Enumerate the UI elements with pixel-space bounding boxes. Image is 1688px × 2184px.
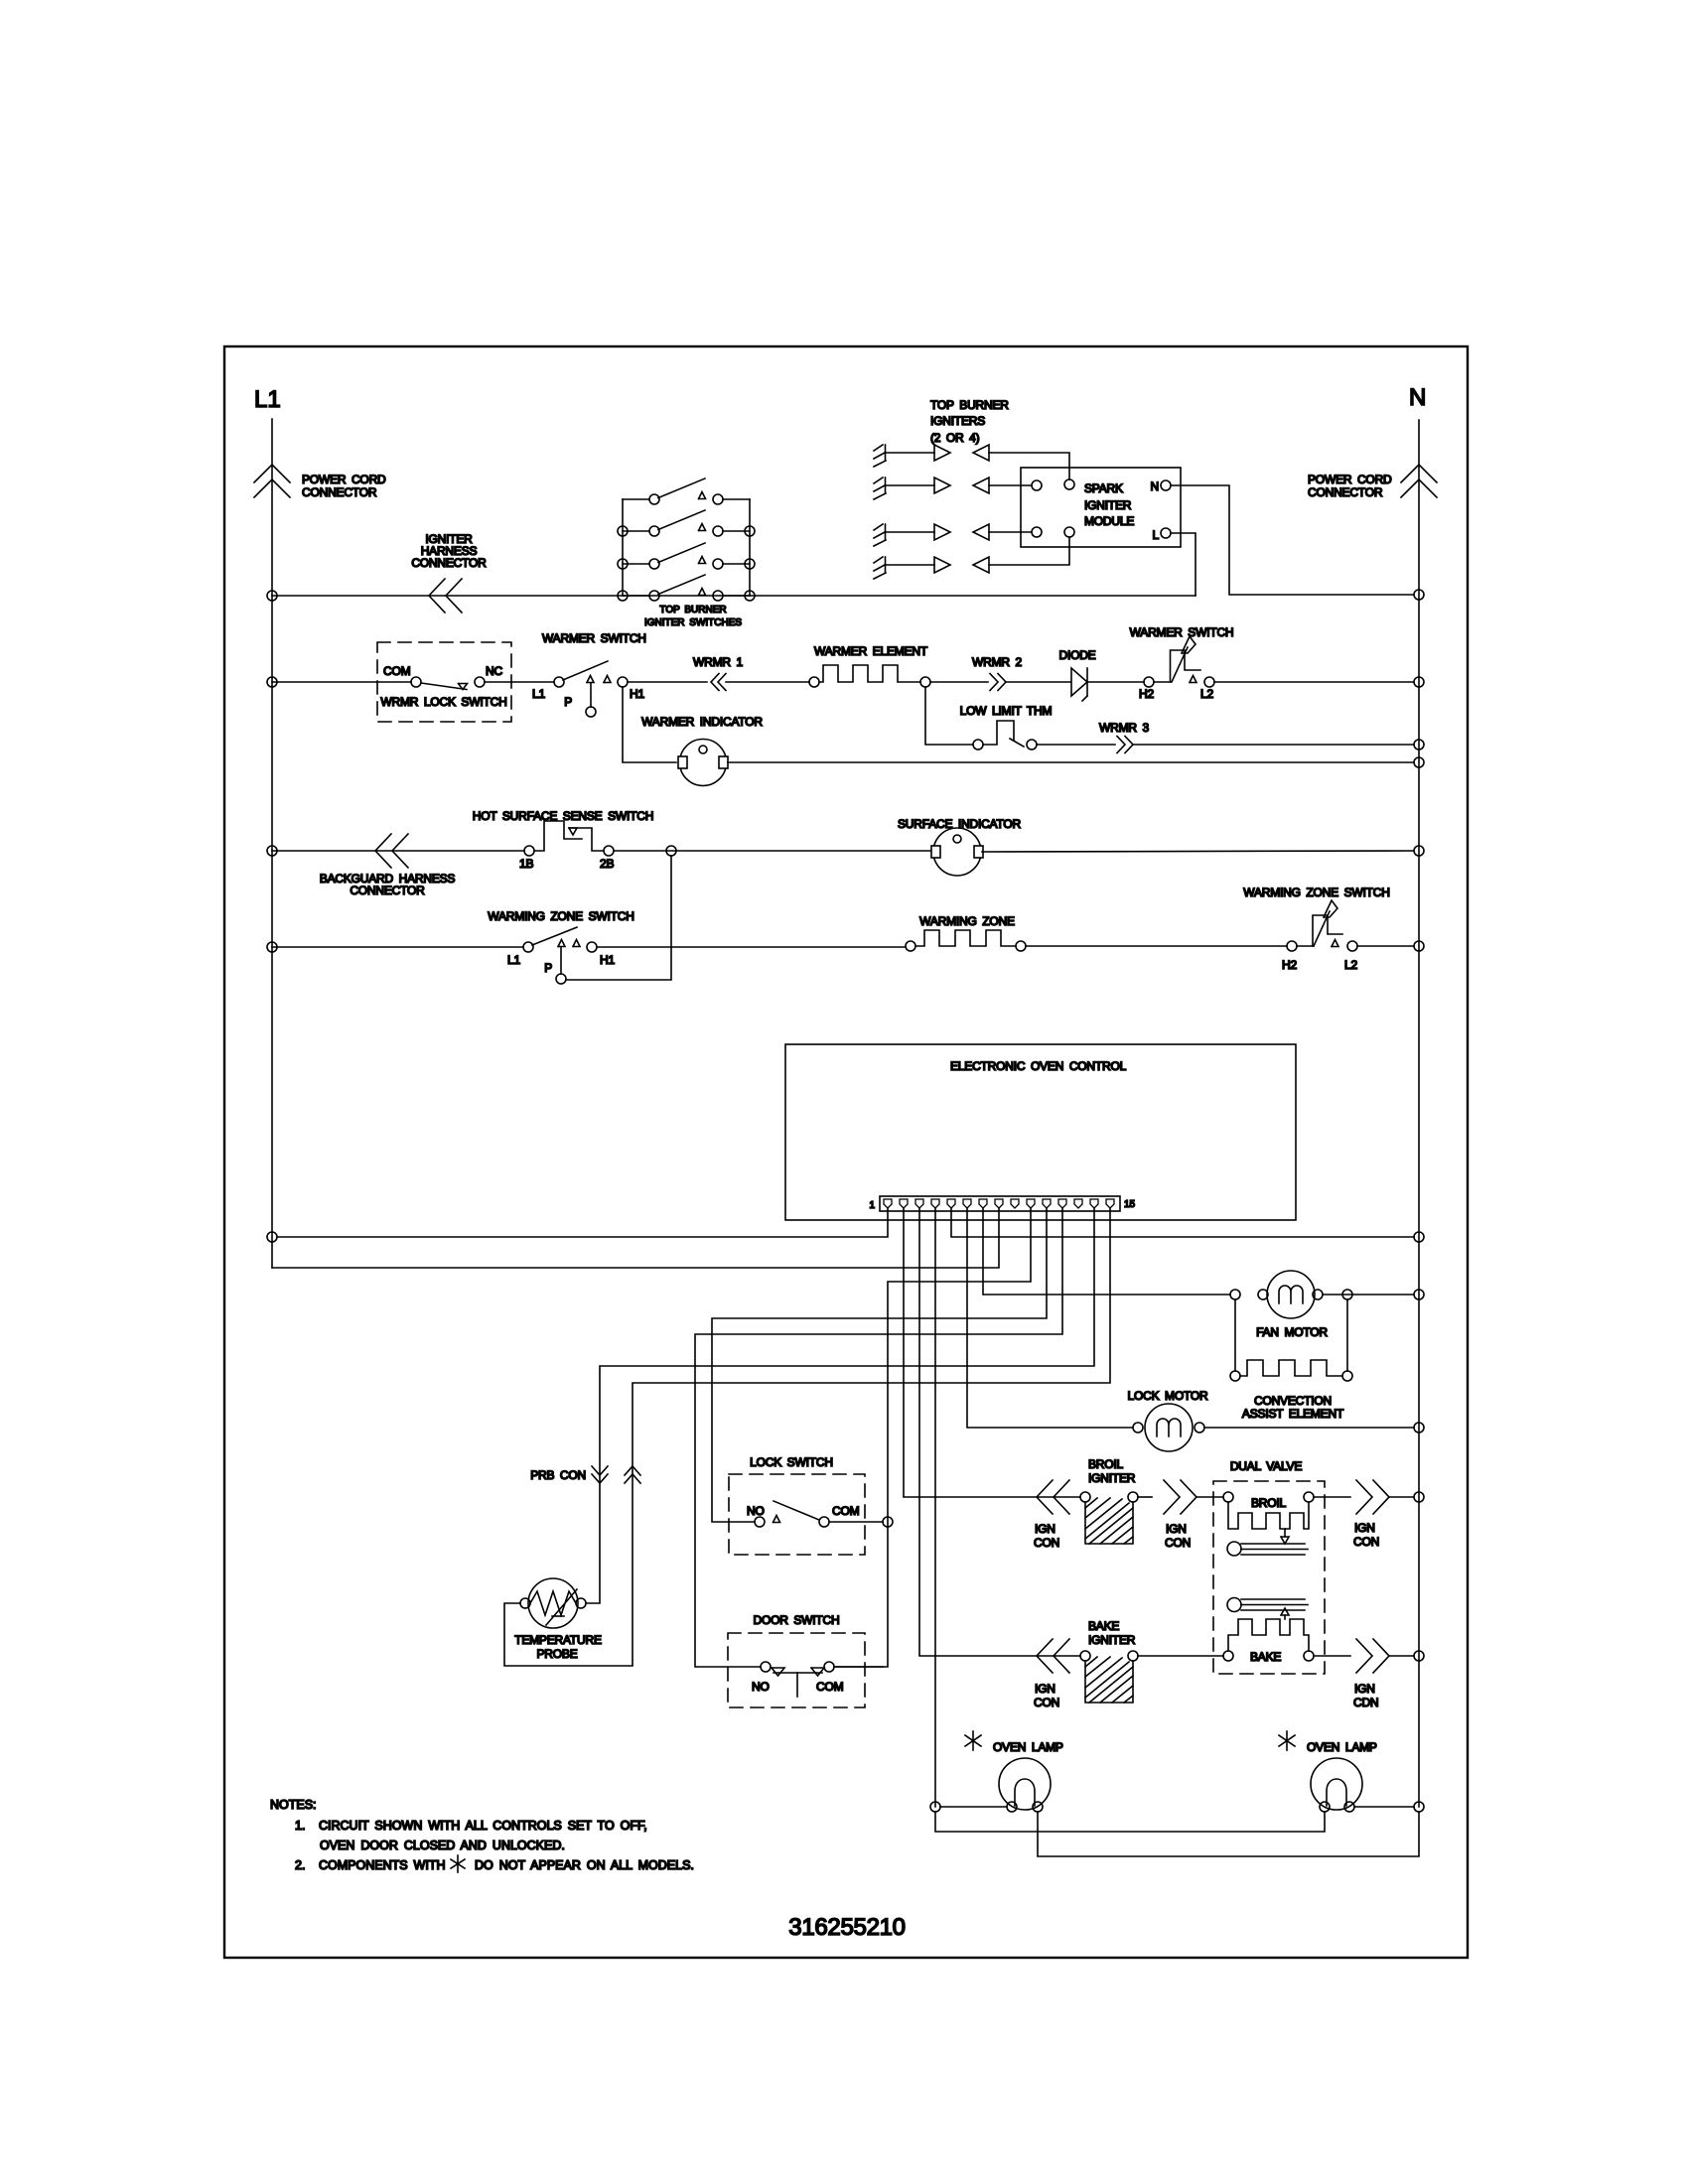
wire H1 to warming zone element bbox=[597, 946, 906, 948]
svg-text:POWER CORD: POWER CORD bbox=[1308, 473, 1392, 486]
svg-text:H1: H1 bbox=[600, 953, 615, 967]
wire lock motor to right rail bbox=[1204, 1427, 1414, 1429]
dual valve bake coil bbox=[1223, 1608, 1314, 1664]
svg-text:BROIL: BROIL bbox=[1088, 1457, 1124, 1471]
top burner igniter switches bbox=[623, 478, 750, 601]
wire H1 down to warmer indicator bbox=[623, 687, 676, 762]
svg-text:CONNECTOR: CONNECTOR bbox=[350, 884, 425, 897]
svg-text:WRMR 1: WRMR 1 bbox=[693, 655, 743, 669]
node junctions igniter switch right bus bbox=[745, 526, 755, 601]
wire element to warming zone switch right bbox=[1026, 945, 1287, 947]
temperature probe bbox=[514, 1578, 602, 1661]
svg-text:COM: COM bbox=[383, 664, 411, 678]
svg-text:1: 1 bbox=[869, 1200, 875, 1211]
backguard harness connector bbox=[320, 834, 456, 897]
node junction right rail lock motor bbox=[1414, 1423, 1424, 1433]
ign con connector bake left bbox=[1034, 1639, 1069, 1709]
svg-text:L1: L1 bbox=[532, 687, 545, 701]
node junction left rail line2 bbox=[267, 677, 277, 687]
svg-text:WRMR LOCK SWITCH: WRMR LOCK SWITCH bbox=[380, 695, 506, 709]
svg-text:COM: COM bbox=[832, 1504, 860, 1518]
svg-text:FAN MOTOR: FAN MOTOR bbox=[1256, 1325, 1328, 1339]
wire igniter row4 to module bbox=[989, 537, 1069, 565]
svg-text:PROBE: PROBE bbox=[536, 1647, 577, 1661]
svg-text:H1: H1 bbox=[630, 687, 644, 701]
bake igniter bbox=[1080, 1619, 1138, 1703]
svg-text:LOW LIMIT THM: LOW LIMIT THM bbox=[960, 704, 1053, 718]
top burner igniter 2 electrode bbox=[874, 478, 989, 499]
wire fan motor to right rail bbox=[1323, 1294, 1414, 1296]
node junction right rail wrmr3 bbox=[1414, 740, 1424, 750]
notes text bbox=[270, 1798, 694, 1872]
svg-text:15: 15 bbox=[1124, 1199, 1136, 1210]
svg-text:L2: L2 bbox=[1344, 958, 1357, 972]
ign con connector broil right bbox=[1353, 1480, 1389, 1549]
node pin warmer element right bbox=[920, 677, 930, 687]
svg-text:CONNECTOR: CONNECTOR bbox=[302, 485, 377, 499]
svg-text:DUAL VALVE: DUAL VALVE bbox=[1230, 1459, 1303, 1473]
svg-text:NC: NC bbox=[486, 664, 502, 678]
svg-text:COMPONENTS WITH: COMPONENTS WITH bbox=[319, 1858, 446, 1872]
low limit thm bbox=[960, 704, 1053, 750]
wire dual valve bake to right rail bbox=[1314, 1655, 1350, 1657]
node junction right rail broil bbox=[1414, 1492, 1424, 1502]
dual valve broil coil bbox=[1223, 1492, 1314, 1544]
warmer element bbox=[809, 644, 928, 687]
wire surface indicator to right rail bbox=[982, 851, 1414, 852]
svg-text:2B: 2B bbox=[600, 857, 614, 871]
svg-text:BROIL: BROIL bbox=[1251, 1496, 1287, 1510]
wire line5 left rail to warming zone switch bbox=[272, 946, 523, 948]
svg-text:COM: COM bbox=[816, 1680, 844, 1694]
wire WRMR1 to warmer element bbox=[726, 681, 809, 683]
svg-text:IGN: IGN bbox=[1354, 1521, 1375, 1535]
svg-text:CON: CON bbox=[1034, 1696, 1059, 1709]
EOC connector pins 1-15 bbox=[884, 1199, 1114, 1208]
svg-text:WARMING ZONE: WARMING ZONE bbox=[919, 914, 1015, 928]
wire pin3 to bake igniter line bbox=[919, 1208, 1080, 1656]
node junction right rail pin5 bbox=[1414, 1232, 1424, 1242]
wire pin8 to left rail corner bbox=[272, 1208, 999, 1268]
svg-text:LOCK SWITCH: LOCK SWITCH bbox=[750, 1455, 833, 1469]
node junction left rail line4 bbox=[267, 846, 277, 856]
igniter harness connector bbox=[411, 532, 487, 613]
WRMR 3 connector bbox=[1099, 721, 1149, 753]
node junction right rail line4 bbox=[1414, 846, 1424, 856]
fan motor bbox=[1256, 1271, 1328, 1339]
wire pin10 to lock and door switch COM bbox=[834, 1208, 1031, 1667]
wire spark module N to right rail bbox=[1171, 485, 1414, 595]
svg-text:1.: 1. bbox=[295, 1819, 305, 1833]
wire ign con to dual valve broil bbox=[1196, 1496, 1223, 1498]
svg-text:BAKE: BAKE bbox=[1088, 1619, 1119, 1633]
svg-text:IGNITER: IGNITER bbox=[1088, 1633, 1136, 1647]
node junction fan line left bbox=[1230, 1290, 1240, 1299]
ign con connector broil middle bbox=[1164, 1480, 1196, 1550]
convection assist element bbox=[1230, 1299, 1352, 1421]
svg-text:IGN: IGN bbox=[1035, 1682, 1055, 1696]
svg-text:DIODE: DIODE bbox=[1058, 648, 1095, 662]
svg-text:MODULE: MODULE bbox=[1084, 514, 1134, 528]
svg-text:WRMR 3: WRMR 3 bbox=[1099, 721, 1149, 735]
svg-text:2.: 2. bbox=[295, 1858, 305, 1872]
svg-text:DOOR SWITCH: DOOR SWITCH bbox=[754, 1613, 840, 1627]
wire L2 to right rail line5 bbox=[1357, 945, 1414, 947]
node junction left rail pin1 bbox=[267, 1232, 277, 1242]
top burner igniter 1 electrode bbox=[874, 445, 989, 467]
wire left rail L1 bbox=[271, 419, 273, 1268]
svg-text:P: P bbox=[544, 961, 552, 975]
warmer switch (left) bbox=[532, 631, 646, 717]
svg-text:IGN: IGN bbox=[1035, 1522, 1055, 1536]
warming zone element bbox=[906, 914, 1026, 951]
node junction right rail line2 bbox=[1414, 677, 1424, 687]
wire pin14 to temperature probe right bbox=[586, 1208, 1094, 1603]
label top burner igniter switches bbox=[644, 605, 742, 628]
svg-text:L1: L1 bbox=[254, 386, 281, 413]
wire bake igniter to dual valve bbox=[1138, 1655, 1223, 1657]
svg-text:WARMING ZONE SWITCH: WARMING ZONE SWITCH bbox=[1243, 886, 1389, 899]
svg-text:NOTES:: NOTES: bbox=[270, 1798, 317, 1812]
WRMR 1 connector bbox=[693, 655, 743, 691]
node junction left rail line1 bbox=[267, 591, 277, 601]
node junction right rail line5 bbox=[1414, 941, 1424, 951]
wire H1 to WRMR1 connector bbox=[628, 681, 707, 683]
top burner igniter 3 electrode bbox=[874, 524, 989, 546]
wire NC to warmer switch L1 bbox=[485, 681, 554, 683]
wire igniter row1 to module bbox=[989, 453, 1069, 479]
broil igniter bbox=[1080, 1457, 1138, 1544]
wire P pin to line4 riser bbox=[566, 856, 671, 980]
wire pin2 to broil igniter line bbox=[904, 1208, 1080, 1497]
wire igniter row3 to module bbox=[989, 531, 1032, 533]
svg-text:CON: CON bbox=[1165, 1536, 1191, 1550]
wire left node to right lamp loop bbox=[935, 1812, 1325, 1832]
wire pin6 to lock motor bbox=[967, 1208, 1133, 1428]
wire fan node down to convection element bbox=[1234, 1299, 1236, 1371]
node junction right rail fan line bbox=[1414, 1290, 1424, 1299]
svg-text:TOP BURNER: TOP BURNER bbox=[659, 605, 726, 615]
svg-text:H2: H2 bbox=[1282, 958, 1297, 972]
wire broil igniter to ign con bbox=[1138, 1496, 1152, 1498]
power cord connector (left) bbox=[254, 465, 386, 499]
svg-text:WRMR 2: WRMR 2 bbox=[972, 655, 1022, 669]
wire pin1 to left rail bbox=[277, 1208, 888, 1237]
svg-text:ELECTRONIC OVEN CONTROL: ELECTRONIC OVEN CONTROL bbox=[950, 1059, 1127, 1073]
svg-text:H2: H2 bbox=[1139, 687, 1154, 701]
warmer switch (right) bbox=[1130, 625, 1234, 701]
wire warmer element node down to low limit thm bbox=[925, 687, 973, 745]
dual valve bake outlet bbox=[1227, 1598, 1308, 1612]
wire line4 left rail to hot surface switch bbox=[272, 850, 524, 852]
wire warmer element to WRMR2 bbox=[930, 681, 988, 683]
svg-text:DO NOT APPEAR ON ALL MODELS.: DO NOT APPEAR ON ALL MODELS. bbox=[475, 1858, 694, 1872]
dual valve broil outlet bbox=[1227, 1542, 1308, 1556]
wire 2B to surface indicator bbox=[614, 850, 933, 852]
wire pin15 to temperature probe left bbox=[504, 1208, 1110, 1666]
wire pin12 to door switch NO bbox=[695, 1208, 1062, 1667]
wire ign con broil right to rail bbox=[1389, 1496, 1414, 1498]
svg-text:NO: NO bbox=[747, 1504, 765, 1518]
node junction fan line right bbox=[1342, 1290, 1352, 1299]
prb con connector bbox=[530, 1466, 640, 1483]
svg-text:(2 OR 4): (2 OR 4) bbox=[930, 431, 980, 445]
wire left lamp return loop bbox=[1038, 1812, 1419, 1856]
wire pin7 to fan motor line bbox=[983, 1208, 1230, 1295]
svg-text:IGNITERS: IGNITERS bbox=[930, 414, 985, 428]
svg-text:L1: L1 bbox=[507, 953, 520, 967]
wire L2 to right rail line2 bbox=[1214, 681, 1414, 683]
wire low limit to WRMR3 bbox=[1037, 744, 1115, 746]
svg-text:WARMER INDICATOR: WARMER INDICATOR bbox=[641, 715, 763, 729]
lock switch bbox=[729, 1455, 883, 1555]
wire pin4 to oven lamp line bbox=[934, 1208, 936, 1807]
node junction line4 riser bbox=[666, 846, 676, 856]
svg-text:WARMER ELEMENT: WARMER ELEMENT bbox=[814, 644, 928, 658]
warming zone switch (right) bbox=[1243, 886, 1389, 972]
warmer indicator bbox=[641, 715, 763, 786]
wire warmer indicator to right rail bbox=[728, 761, 1414, 763]
node junction right rail bake bbox=[1414, 1651, 1424, 1661]
asterisk in note 2 bbox=[451, 1855, 465, 1872]
wire right lamp to right rail bbox=[1354, 1806, 1414, 1808]
svg-text:NO: NO bbox=[752, 1680, 770, 1694]
svg-text:N: N bbox=[1409, 384, 1426, 411]
svg-text:N: N bbox=[1151, 479, 1159, 493]
oven lamp (right) bbox=[1307, 1740, 1377, 1812]
warming zone switch (left) bbox=[488, 909, 633, 984]
WRMR 2 connector bbox=[972, 655, 1022, 691]
svg-text:BAKE: BAKE bbox=[1250, 1650, 1281, 1664]
svg-text:IGNITER: IGNITER bbox=[1084, 498, 1132, 512]
ign con connector broil left bbox=[1034, 1480, 1069, 1550]
wire ign con bake right to rail bbox=[1389, 1655, 1414, 1657]
wire line2 left rail to warmer lock switch bbox=[272, 681, 411, 683]
wire node to left oven lamp bbox=[940, 1806, 1007, 1808]
label top burner igniters (2 or 4) bbox=[930, 398, 1009, 445]
node junction right rail oven lamps bbox=[1414, 1802, 1424, 1812]
wire igniter row2 to module bbox=[989, 484, 1032, 486]
svg-text:WARMER SWITCH: WARMER SWITCH bbox=[542, 631, 646, 645]
svg-text:CONNECTOR: CONNECTOR bbox=[1308, 485, 1383, 499]
node junction left rail line5 bbox=[267, 942, 277, 952]
spark igniter module bbox=[1021, 468, 1181, 547]
svg-text:P: P bbox=[564, 695, 572, 709]
wire right rail N bbox=[1418, 420, 1420, 1807]
wire WRMR3 to right rail bbox=[1133, 744, 1414, 746]
surface indicator bbox=[898, 817, 1022, 876]
svg-text:OVEN LAMP: OVEN LAMP bbox=[1307, 1740, 1377, 1754]
svg-text:TEMPERATURE: TEMPERATURE bbox=[514, 1633, 602, 1647]
svg-text:L2: L2 bbox=[1200, 687, 1213, 701]
svg-text:SPARK: SPARK bbox=[1084, 481, 1123, 495]
svg-text:L: L bbox=[1153, 528, 1160, 542]
svg-text:316255210: 316255210 bbox=[788, 1914, 905, 1941]
svg-text:IGNITER SWITCHES: IGNITER SWITCHES bbox=[644, 617, 742, 628]
node junction lock switch COM riser bbox=[883, 1517, 893, 1527]
svg-text:POWER CORD: POWER CORD bbox=[302, 473, 386, 486]
svg-text:IGN: IGN bbox=[1354, 1682, 1375, 1696]
svg-text:CONNECTOR: CONNECTOR bbox=[411, 556, 487, 570]
diode bbox=[1058, 648, 1095, 701]
node junction right rail indicator return bbox=[1414, 757, 1424, 767]
lock motor bbox=[1128, 1389, 1208, 1451]
svg-text:OVEN DOOR CLOSED AND UNLOCKED.: OVEN DOOR CLOSED AND UNLOCKED. bbox=[320, 1839, 565, 1852]
top burner igniter 4 electrode bbox=[874, 557, 989, 579]
wire pin11 to lock switch NO bbox=[712, 1208, 1047, 1522]
svg-text:LOCK MOTOR: LOCK MOTOR bbox=[1128, 1389, 1208, 1403]
svg-text:TOP BURNER: TOP BURNER bbox=[930, 398, 1009, 412]
asterisk left oven lamp bbox=[965, 1731, 981, 1750]
svg-text:WARMER SWITCH: WARMER SWITCH bbox=[1130, 625, 1234, 639]
svg-text:WARMING ZONE SWITCH: WARMING ZONE SWITCH bbox=[488, 909, 633, 923]
svg-text:1B: 1B bbox=[519, 857, 533, 871]
wire diode to H2 bbox=[1087, 681, 1144, 683]
door switch bbox=[728, 1613, 883, 1707]
wrmr lock switch bbox=[377, 642, 511, 722]
svg-text:CON: CON bbox=[1353, 1535, 1379, 1549]
svg-text:CONVECTION: CONVECTION bbox=[1254, 1394, 1332, 1408]
wire dual valve broil to right rail bbox=[1314, 1496, 1350, 1498]
svg-text:IGNITER: IGNITER bbox=[1088, 1471, 1136, 1485]
svg-text:OVEN LAMP: OVEN LAMP bbox=[993, 1740, 1063, 1754]
wire spark module L to line1 bbox=[1171, 533, 1196, 596]
wire pin5 to right rail bbox=[951, 1208, 1414, 1237]
svg-text:PRB CON: PRB CON bbox=[530, 1468, 586, 1482]
node junction oven lamp line left bbox=[930, 1802, 940, 1812]
oven lamp (left) bbox=[993, 1740, 1063, 1812]
node junction N wire right rail bbox=[1414, 590, 1424, 600]
wire WRMR2 to diode bbox=[1006, 681, 1070, 683]
svg-text:CIRCUIT SHOWN WITH ALL CONTROL: CIRCUIT SHOWN WITH ALL CONTROLS SET TO O… bbox=[319, 1819, 647, 1833]
border frame bbox=[224, 346, 1468, 1958]
hot surface sense switch bbox=[473, 809, 654, 871]
electronic oven control U1 bbox=[785, 1044, 1296, 1220]
svg-text:ASSIST ELEMENT: ASSIST ELEMENT bbox=[1242, 1407, 1344, 1421]
svg-text:CON: CON bbox=[1034, 1536, 1059, 1550]
power cord connector (right) bbox=[1308, 465, 1437, 499]
asterisk right oven lamp bbox=[1279, 1731, 1295, 1750]
ign con connector bake right bbox=[1353, 1639, 1389, 1709]
svg-text:IGN: IGN bbox=[1166, 1522, 1187, 1536]
node junctions igniter switch left bus bbox=[618, 526, 628, 601]
wire top rail line L1 to spark module bbox=[272, 595, 1196, 597]
svg-text:CDN: CDN bbox=[1353, 1696, 1378, 1709]
dual valve bbox=[1213, 1459, 1325, 1674]
